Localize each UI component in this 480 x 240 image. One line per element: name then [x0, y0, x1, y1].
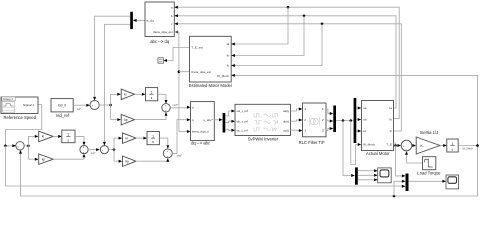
svg-text:ua: ua	[363, 106, 367, 110]
block: SvPWM Inverter	[235, 104, 291, 135]
wire is_dq from abc->dq to demux	[133, 19, 145, 22]
sum S2 (isq* combine)	[80, 146, 88, 155]
wire reference speed to sum	[5, 105, 41, 146]
node J13 (W_Mech tap to scope mux)	[393, 180, 406, 198]
svg-text:kp: kp	[124, 118, 128, 122]
svg-text:usq*: usq*	[177, 154, 182, 158]
wire demux to motor ua	[356, 107, 361, 110]
svg-text:abc --> dq: abc --> dq	[150, 39, 170, 44]
svg-text:s: s	[152, 140, 154, 144]
node J11 (T_E tap to scope mux)	[394, 144, 405, 177]
mux M2 (scope signals)	[406, 174, 409, 192]
gain kp (d axis)	[117, 114, 134, 125]
node J2 (Ib branch)	[235, 15, 305, 56]
svg-text:Ia: Ia	[389, 106, 392, 110]
svg-text:T_E: T_E	[386, 143, 392, 147]
wire theta to dq->abc	[179, 130, 191, 133]
wire S7 to gain	[412, 144, 416, 147]
wire usd* to dq->abc	[170, 106, 190, 109]
svg-text:Isd_ref: Isd_ref	[56, 113, 70, 118]
svg-text:Reference Speed: Reference Speed	[4, 115, 37, 120]
svg-text:1: 1	[304, 107, 306, 111]
gain kp (q axis)	[119, 156, 136, 167]
svg-text:isd*: isd*	[77, 107, 81, 111]
wire integrator(speed) to sum S2	[75, 136, 86, 145]
svg-text:T_E_est: T_E_est	[191, 46, 203, 50]
svg-text:RLC Filter T/F: RLC Filter T/F	[299, 140, 326, 145]
svg-text:1: 1	[152, 134, 154, 138]
wire S3 out	[99, 104, 110, 106]
svg-text:dq --> abc: dq --> abc	[191, 140, 210, 145]
svg-text:kp: kp	[125, 159, 129, 163]
integrator 1/s (mech)	[447, 139, 458, 152]
integrator 1/s (q axis)	[147, 132, 159, 145]
svg-text:s: s	[452, 148, 454, 152]
mux M1 (voltages)	[333, 106, 336, 133]
wire usq* to dq->abc	[172, 118, 190, 153]
svg-text:Group 1: Group 1	[3, 97, 14, 101]
sum S3 (isd error)	[90, 97, 99, 110]
integrator 1/s (speed)	[62, 130, 75, 143]
node J8 (theta to estimated model)	[178, 70, 190, 73]
svg-text:is_dq: is_dq	[146, 19, 154, 23]
svg-text:ki: ki	[124, 93, 127, 97]
wire ki(q) to integrator	[136, 137, 147, 140]
sum S5 (isq error)	[100, 145, 108, 154]
wire RLC out3 to mux	[326, 127, 333, 131]
node J10 (W_Mech motor input tap)	[350, 119, 362, 164]
wire demux to SVPWM in3	[225, 129, 235, 132]
svg-text:SvPWM Inverter: SvPWM Inverter	[248, 137, 279, 142]
svg-text:q: q	[192, 118, 194, 122]
wire Ia top line	[177, 7, 399, 118]
demux D1 (is_dq split)	[130, 12, 133, 29]
svg-text:3': 3'	[322, 129, 325, 133]
svg-text:usd*: usd*	[172, 103, 177, 107]
svg-text:ua_t_ref: ua_t_ref	[237, 109, 248, 113]
sum S6 (usq combine)	[163, 149, 172, 159]
wire W_Mech out	[458, 145, 477, 147]
wire S2 out isq*	[88, 148, 100, 151]
gain Inertia 1/J	[416, 137, 440, 154]
block: Reference Speed (signal builder)	[1, 97, 38, 114]
goto tag T_E	[158, 58, 163, 63]
wire RLC out1 to mux	[326, 109, 333, 115]
svg-text:-K-: -K-	[420, 144, 424, 148]
block: Estimated Motor Model	[190, 36, 235, 82]
svg-text:1': 1'	[322, 107, 325, 111]
svg-text:s: s	[67, 138, 69, 142]
svg-text:Load Torque: Load Torque	[417, 171, 441, 176]
node J6 (d PI branch)	[109, 94, 117, 119]
wire demux D4 to scope in1	[358, 169, 378, 172]
wire demux to motor uc	[356, 130, 361, 133]
block: Actual Motor	[362, 101, 394, 151]
wire kp(speed) to sum S2	[53, 154, 85, 160]
demux D3 (voltages to motor)	[354, 98, 357, 143]
svg-text:W_Mech: W_Mech	[363, 143, 375, 147]
svg-text:isq*: isq*	[91, 151, 95, 155]
node J7 (q PI branch)	[113, 138, 119, 161]
gain ki (q axis)	[119, 133, 136, 144]
gain ki (speed)	[35, 131, 53, 142]
wire Ib top line	[177, 16, 396, 108]
wire reference into scope mux	[398, 185, 405, 188]
node J1 (Ia branch)	[235, 6, 289, 44]
wire kp(d) to sum S4	[135, 112, 168, 120]
svg-text:Estimated Motor Model: Estimated Motor Model	[189, 83, 232, 88]
wire u_abc* to demux	[214, 118, 222, 121]
gain kp (speed)	[35, 154, 53, 165]
block: RLC Filter T/F	[303, 103, 327, 137]
sum S1 (speed error)	[12, 142, 24, 154]
svg-text:d: d	[192, 105, 194, 109]
wire Isd_0 to sum S3	[73, 104, 90, 107]
svg-text:Signal 1: Signal 1	[23, 103, 34, 107]
wire mux M2 to scope	[409, 180, 447, 183]
wire demux D4 to scope in2	[358, 174, 378, 177]
scope Scope1 (voltages)	[378, 168, 392, 183]
wire load torque to sum S7	[407, 155, 423, 163]
svg-text:a: a	[171, 5, 173, 9]
svg-text:ub: ub	[363, 118, 367, 122]
demux D4 (voltage scope)	[355, 167, 358, 184]
wire theta net vertical	[174, 32, 179, 132]
wire isd measured	[95, 16, 131, 97]
svg-text:b: b	[171, 14, 173, 18]
wire uc(t) to RLC	[291, 129, 303, 132]
wire S5 out	[109, 149, 115, 151]
svg-text:W_Mech: W_Mech	[217, 74, 229, 78]
svg-text:ub_t_ref: ub_t_ref	[237, 119, 248, 123]
svg-text:s: s	[151, 96, 153, 100]
svg-text:Isd_0: Isd_0	[58, 103, 66, 107]
wire isq measured	[103, 24, 130, 145]
block: Load Torque step	[423, 157, 436, 170]
svg-text:2': 2'	[322, 118, 325, 122]
svg-text:uc(t): uc(t)	[283, 128, 289, 132]
wire ki(speed) to integrator	[53, 135, 62, 138]
wire ki(d) to integrator	[135, 93, 146, 96]
wire integrator(q) to sum S6	[159, 138, 169, 149]
wire ub(t) to RLC	[291, 119, 303, 122]
svg-text:3: 3	[304, 129, 306, 133]
wire T_E_est to goto tag	[163, 48, 189, 63]
wire S1 out	[24, 145, 28, 147]
node J9 (voltage tap to scope demux)	[342, 119, 355, 177]
svg-text:uc: uc	[363, 129, 367, 133]
svg-text:Ib: Ib	[227, 54, 230, 58]
node J4 (reference branch)	[4, 145, 398, 187]
svg-text:Ib: Ib	[389, 118, 392, 122]
svg-text:Ia: Ia	[227, 42, 230, 46]
svg-text:kp: kp	[42, 157, 46, 161]
svg-text:theta_dqa_est: theta_dqa_est	[153, 30, 173, 34]
wire demux to SVPWM in1	[225, 110, 235, 117]
wire mux M1 to demux B	[336, 120, 354, 122]
svg-text:2: 2	[304, 118, 306, 122]
sum S7 (torque sum)	[401, 140, 412, 155]
svg-text:W_Mech: W_Mech	[463, 147, 474, 151]
block: Isd_0 constant	[51, 99, 73, 112]
svg-text:theta_dqa_est: theta_dqa_est	[191, 70, 211, 74]
wire T_E to sum S7	[394, 143, 402, 147]
wire W_Mech feedback bottom	[21, 146, 478, 197]
node J5 (speed PI branch)	[27, 136, 35, 159]
svg-text:ki: ki	[125, 136, 128, 140]
svg-text:1: 1	[151, 90, 153, 94]
wire RLC out2 to mux	[326, 120, 333, 123]
wire demux D4 to scope in3	[358, 178, 378, 181]
svg-text:ki: ki	[42, 135, 45, 139]
svg-text:Actual Motor: Actual Motor	[366, 151, 390, 156]
integrator 1/s (d axis)	[146, 88, 158, 101]
wire integrator(d) to sum S4	[158, 94, 168, 103]
svg-text:ub(t): ub(t)	[283, 119, 289, 123]
wire ua(t) to RLC	[291, 108, 303, 112]
wire gain to integrator	[440, 144, 447, 147]
svg-text:Inertia 1/J: Inertia 1/J	[420, 130, 438, 135]
svg-text:u_abc*: u_abc*	[203, 118, 213, 122]
wire demux to SVPWM in2	[225, 120, 235, 123]
node J3 (Ic branch)	[235, 23, 323, 66]
wire Ic top line	[177, 24, 401, 131]
gain ki (d axis)	[117, 89, 134, 100]
scope Scope2 (speed/torque)	[446, 175, 459, 189]
node J12 (W_Mech feedback junction)	[476, 144, 479, 147]
sum S4 (usd combine)	[162, 104, 170, 113]
svg-text:theta_dqa_e: theta_dqa_e	[192, 130, 209, 134]
wire W_Mech feedback top	[235, 75, 478, 145]
svg-text:ua(t): ua(t)	[283, 109, 289, 113]
wire demux to motor ub	[356, 118, 361, 121]
svg-text:uc_t_ref: uc_t_ref	[237, 128, 248, 132]
wire kp(q) to sum S6	[136, 158, 169, 162]
demux D2 (u_abc split)	[223, 113, 226, 133]
